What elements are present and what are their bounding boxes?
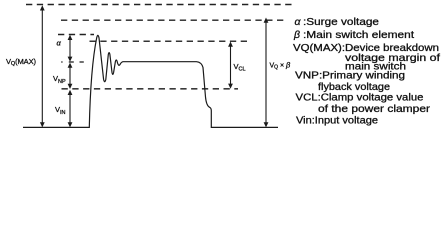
svg-text:VQ × β: VQ × β (270, 61, 292, 71)
axis arrow VQ(MAX) double-headed vertical (40, 5, 45, 127)
measurement arrow VCL (clamp) (228, 42, 233, 89)
dashed level line VQ x beta (second) (61, 19, 286, 21)
svg-text:VQ(MAX): VQ(MAX) (6, 57, 37, 67)
svg-text:Vin:Input voltage: Vin:Input voltage (296, 116, 378, 127)
measurement arrow alpha (surge) (68, 35, 73, 62)
dashed level line surge peak (alpha top) (58, 34, 94, 36)
measurement arrow VQ x beta (264, 18, 269, 128)
measurement arrow VIN (input) (68, 90, 73, 128)
svg-text:of the power clamper: of the power clamper (318, 104, 431, 115)
svg-text:VNP:Primary winding: VNP:Primary winding (295, 70, 405, 81)
measurement arrow VNP (flyback) (68, 63, 73, 89)
svg-text::Main switch element: :Main switch element (303, 30, 414, 41)
dashed level line Vin (62, 88, 239, 90)
svg-text:α: α (57, 39, 62, 48)
svg-text::Surge voltage: :Surge voltage (303, 17, 380, 28)
dashed level line VQ(MAX) (top) (26, 4, 294, 6)
dashed level line clamp level (VCL top) (90, 40, 248, 42)
svg-text:β: β (293, 29, 300, 41)
svg-text:VCL:Clamp voltage value: VCL:Clamp voltage value (296, 93, 424, 104)
svg-text:flyback voltage: flyback voltage (318, 82, 390, 93)
svg-text:α: α (295, 16, 302, 28)
dash-dot level line flyback flat level (61, 61, 84, 63)
waveform Vds trace with baseline (23, 35, 278, 127)
